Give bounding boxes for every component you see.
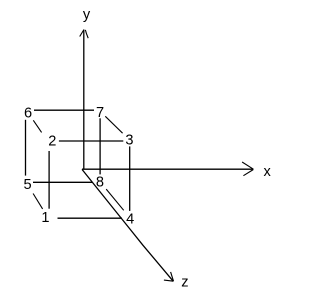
svg-text:3: 3 [125, 133, 133, 149]
svg-text:2: 2 [48, 134, 56, 150]
svg-text:y: y [83, 7, 91, 23]
svg-text:z: z [181, 275, 188, 291]
svg-text:6: 6 [24, 106, 32, 122]
svg-text:5: 5 [23, 177, 31, 193]
svg-text:8: 8 [96, 175, 104, 191]
svg-text:4: 4 [126, 212, 134, 228]
svg-text:1: 1 [41, 210, 49, 226]
svg-text:x: x [264, 164, 272, 180]
svg-text:7: 7 [96, 105, 104, 121]
